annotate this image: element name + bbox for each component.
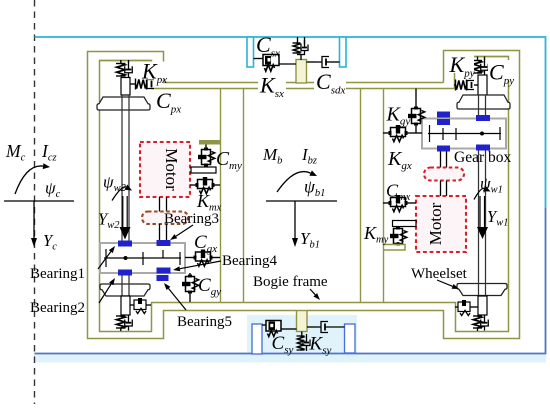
primary longitudinal spring-damper K_py/C_py [454,84,456,86]
bogie frame inner boundary [100,57,509,332]
pinion shaft left [159,224,161,240]
bearing4 block [157,268,171,274]
primary vertical spring right-top [477,57,479,62]
bearing1 block [118,241,132,247]
svg-text:Bearing4: Bearing4 [222,253,277,269]
svg-text:Bearing2: Bearing2 [30,300,85,316]
label K_px [141,62,166,80]
bogie lateral axis line [266,200,337,202]
coupling left (brown dashed stadium) [142,212,188,225]
frame arm for K_my [383,245,405,251]
damper C_my vertical [205,145,207,151]
traction rod post (top) [296,60,307,84]
label K_sx [258,75,286,94]
motor shaft right [440,181,442,197]
label Bearing3 [163,206,235,224]
motor mount bar right [393,221,417,227]
yaw arrow psi_c [15,166,43,194]
svg-text:Wheelset: Wheelset [411,266,468,282]
primary longitudinal damper left-bottom [130,304,134,306]
right axle journal bottom [478,296,487,315]
svg-text:Bearing1: Bearing1 [30,266,85,282]
svg-text:Gear box: Gear box [454,149,511,166]
bearing2 block [118,270,132,276]
svg-text:Bearing5: Bearing5 [177,314,232,330]
label C_py [488,60,514,81]
svg-text:Bearing3: Bearing3 [164,211,219,227]
car body bottom edge (blue) [35,208,546,354]
car body floor light-blue band [34,354,546,363]
gearbox right (grey) [422,119,506,149]
bogie frame left transom column [220,89,222,303]
svg-text:Motor: Motor [162,148,181,191]
cyan hanger post right [340,37,347,67]
motor right (red dashed) [416,196,466,252]
label C_px [155,91,185,110]
right wheel top [457,95,510,109]
pinion shaft right [440,152,442,169]
right pinion bearing blocks [437,112,450,118]
primary vertical spring right-bottom [473,316,481,328]
primary longitudinal spring-damper K_px/C_px [130,83,135,85]
right axle journal top [478,75,487,95]
secondary suspension K_sx vertical spring-damper [297,37,299,44]
spring K_mx horizontal [190,184,196,186]
primary vertical spring left-bottom [117,316,125,328]
primary vertical spring left-top [120,60,122,64]
motor shaft to coupling [159,197,161,212]
spring K_gy vertical [415,89,417,109]
yaw arrow psi_b1 [277,172,311,192]
bogie frame inner top lines of brackets [100,60,152,62]
car body centre dashed datum line [34,0,36,404]
damper C_gy vertical [189,273,191,276]
spring K_my vertical [397,227,399,231]
damper C_gx horizontal [185,257,194,259]
primary vertical damper left-bottom [128,315,130,323]
left wheel top [97,97,150,110]
label C_sdx [314,72,346,91]
spring K_gx horizontal [383,132,390,134]
bogie frame right transom column [360,89,362,303]
left axle [121,95,123,296]
primary vertical damper left-top [128,62,130,70]
left axle journal bottom [121,296,130,315]
bearing3 block [157,240,171,246]
secondary lateral suspension light-blue area [247,315,357,354]
left axle journal top [121,78,130,96]
spring K_sy vertical under post [301,332,303,337]
frame arm for C_my [199,140,220,145]
left wheel bottom [100,284,150,296]
primary longitudinal damper right-bottom [455,306,458,308]
traction rod post (bottom) [297,311,308,332]
primary vertical damper right-top [484,59,486,67]
damper C_sy horizontal [262,324,266,326]
gear train schematic left [104,257,181,259]
svg-text:Motor: Motor [426,202,445,245]
primary vertical damper right-bottom [484,315,486,323]
cyan hanger post left [247,37,254,67]
right axle [478,95,480,296]
car body lateral axis line [4,200,74,202]
damper C_mx horizontal [383,202,390,204]
svg-text:Bogie frame: Bogie frame [253,274,328,290]
motor left (red dashed) [140,142,190,197]
car body top edge (cyan) [35,37,546,208]
lateral bumpstop bracket right (blue) [345,324,356,353]
gear train schematic right [428,133,501,135]
bearing5 block [157,275,169,281]
right wheel bottom [457,284,507,296]
damper right of post (secondary lateral) [307,326,315,328]
arrow Y_b1 [294,201,296,238]
right axle bearing blocks [476,115,490,121]
label K_py [448,54,474,74]
gearbox left (grey) [100,243,185,273]
lateral bumpstop bracket left (blue) [252,324,262,354]
motor mount bar left [191,167,216,173]
Y_w2 double-shaft arrow [122,196,124,228]
coupling right (red dashed stadium) [424,168,464,181]
damper C_sdx horizontal [307,61,317,63]
damper C_sx horizontal [254,58,264,60]
bogie frame outer boundary [88,51,520,339]
arrow Y_c [33,201,35,238]
Y_w1 double-shaft arrow [479,196,481,228]
